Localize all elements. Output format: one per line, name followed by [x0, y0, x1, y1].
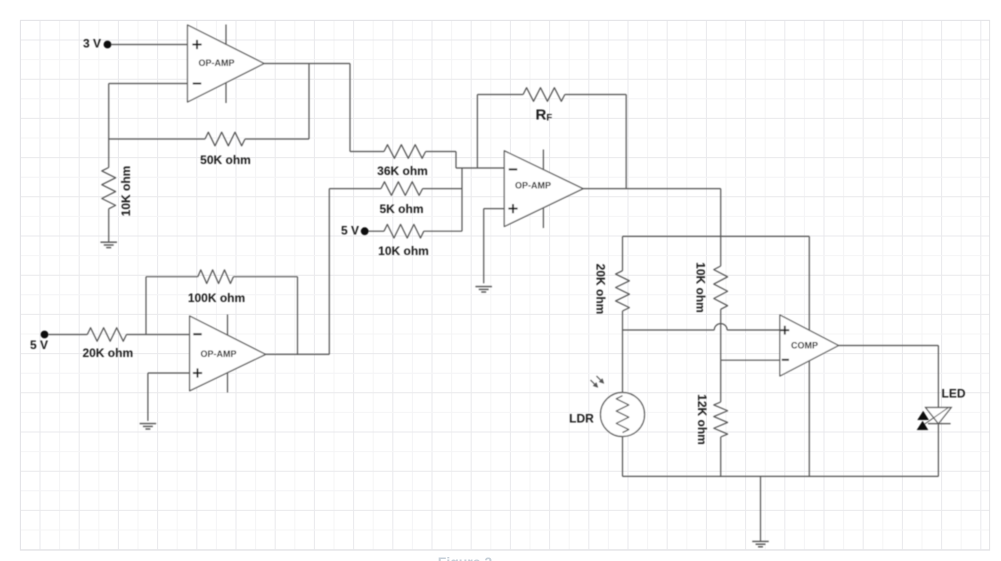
- svg-text:5 V: 5 V: [30, 338, 48, 352]
- svg-text:20K ohm: 20K ohm: [593, 264, 607, 315]
- svg-text:100K ohm: 100K ohm: [188, 291, 245, 305]
- svg-text:10K ohm: 10K ohm: [378, 244, 429, 258]
- svg-text:5 V: 5 V: [341, 223, 359, 237]
- svg-text:20K ohm: 20K ohm: [82, 346, 133, 360]
- svg-text:LDR: LDR: [569, 411, 594, 425]
- svg-text:COMP: COMP: [791, 341, 818, 351]
- svg-text:OP-AMP: OP-AMP: [515, 180, 551, 190]
- svg-text:OP-AMP: OP-AMP: [201, 349, 237, 359]
- svg-text:10K ohm: 10K ohm: [119, 166, 133, 217]
- svg-text:12K ohm: 12K ohm: [695, 394, 709, 445]
- svg-text:Figure 2: Figure 2: [438, 554, 493, 561]
- svg-text:3 V: 3 V: [83, 37, 101, 51]
- svg-text:OP-AMP: OP-AMP: [199, 58, 235, 68]
- svg-text:50K ohm: 50K ohm: [200, 153, 251, 167]
- svg-text:5K ohm: 5K ohm: [379, 202, 423, 216]
- svg-text:36K ohm: 36K ohm: [377, 164, 428, 178]
- svg-text:LED: LED: [942, 386, 966, 400]
- svg-text:10K ohm: 10K ohm: [693, 262, 707, 313]
